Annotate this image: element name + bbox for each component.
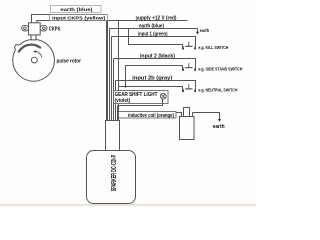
CKPS sensor body [29,23,41,35]
svg-text:e.g. SIDE STAND SWITCH: e.g. SIDE STAND SWITCH [198,66,243,71]
bundle riser earth-right [109,29,111,122]
svg-text:pulse rotor: pulse rotor [57,58,82,64]
label box inductive coil (orange) [119,112,177,119]
coil terminal right stub [192,113,194,117]
label box earth (blue) top left [51,6,102,13]
wire inductive coil label to coil [176,113,182,117]
CKPS stem to rotor [31,35,37,40]
wire supply +12 V (red) [108,20,188,22]
svg-text:earth: earth [200,28,210,33]
CDI unit SPARKER DC-CDI-P [87,151,136,204]
bundle riser earth-left [106,15,108,122]
svg-text:e.g. KILL SWITCH: e.g. KILL SWITCH [198,45,229,50]
bundle riser gear shift light [117,106,119,122]
svg-text:earth: earth [213,124,225,130]
cable sheath [106,121,120,151]
svg-text:GEAR SHIFT LIGHT: GEAR SHIFT LIGHT [115,92,158,98]
ground symbol earth top right [197,29,199,32]
switch kill: contacts, bridge, actuator [182,42,196,50]
junction side-stand feed to neutral feed [125,86,127,88]
bundle riser input 2b [115,81,117,122]
svg-text:input 2 (black): input 2 (black) [140,53,175,59]
CKPS left mounting ear [22,25,29,31]
lamp gear shift light [160,93,166,103]
svg-text:earth (blue): earth (blue) [139,24,164,30]
CKPS right mounting ear [40,25,47,31]
pulse rotor hub [31,57,37,63]
svg-text:supply +12 V (red): supply +12 V (red) [136,15,177,21]
wire input 2b (gray) [116,81,196,91]
wire earth (blue) right [110,28,198,30]
svg-text:CKPS: CKPS [49,27,61,33]
wire side stand switch earth feed [126,66,183,87]
pulse rotor notch [16,45,20,50]
svg-text:inductive coil (orange): inductive coil (orange) [128,113,174,119]
wire earth (blue) from CKPS to bundle [32,15,107,23]
svg-text:(violet): (violet) [115,98,131,104]
svg-text:input 1 (green): input 1 (green) [138,32,168,38]
inductive coil HT tower [184,108,190,117]
ground symbol earth at coil [218,119,221,122]
wire input 2 (black) [114,59,196,70]
wire kill switch earth feed [129,29,183,49]
svg-text:e.g. NEUTRAL SWITCH: e.g. NEUTRAL SWITCH [198,88,238,93]
wire neutral switch earth feed [119,87,183,122]
svg-text:earth (blue): earth (blue) [61,7,94,12]
inductive coil body [180,108,195,140]
pulse rotor rotation arrow [35,51,42,57]
wire input 1 (green) [112,37,196,49]
pulse rotor slot arc [19,45,40,52]
bottom frame line [0,204,256,205]
svg-text:input 2b (gray): input 2b (gray) [132,76,172,82]
svg-text:SPARKER DC-CDI-P: SPARKER DC-CDI-P [109,155,118,192]
pulse rotor disc [13,39,55,81]
wire input CKPS (yellow) from CKPS to bundle [37,21,108,23]
label box input CKPS (yellow) [50,15,108,21]
wire inductive coil to earth [193,113,220,120]
bundle riser input 1 [111,37,113,122]
wire gear shift light [118,100,163,106]
label box GEAR SHIFT LIGHT (violet) [114,91,169,104]
bundle riser input CKPS [107,21,109,122]
switch neutral: contacts, bridge, actuator [182,84,196,92]
svg-text:input CKPS (yellow): input CKPS (yellow) [52,16,106,21]
riser supply-to-earth link long vertical [118,21,120,122]
bundle riser input 2 [113,59,115,122]
switch side stand: contacts, bridge, actuator [182,63,196,71]
